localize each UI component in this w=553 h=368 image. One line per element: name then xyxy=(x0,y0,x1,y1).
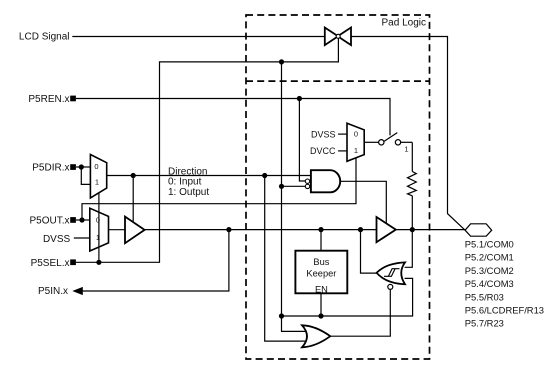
svg-text:DVSS: DVSS xyxy=(43,234,71,245)
svg-text:EN: EN xyxy=(315,285,328,295)
svg-text:1: 1 xyxy=(404,145,408,154)
svg-text:DVCC: DVCC xyxy=(310,146,336,156)
svg-text:P5.2/COM1: P5.2/COM1 xyxy=(465,252,514,263)
svg-text:0: 0 xyxy=(354,130,358,139)
svg-text:P5IN.x: P5IN.x xyxy=(38,286,68,297)
svg-text:0: Input: 0: Input xyxy=(168,176,202,187)
svg-text:Bus: Bus xyxy=(313,257,329,267)
svg-text:P5.6/LCDREF/R13: P5.6/LCDREF/R13 xyxy=(465,305,544,316)
svg-text:P5.4/COM3: P5.4/COM3 xyxy=(465,278,514,289)
svg-text:P5.5/R03: P5.5/R03 xyxy=(465,291,504,302)
svg-text:P5.7/R23: P5.7/R23 xyxy=(465,318,504,329)
svg-text:P5SEL.x: P5SEL.x xyxy=(31,258,70,269)
svg-text:1: 1 xyxy=(354,146,358,155)
svg-text:1: 1 xyxy=(96,233,100,242)
svg-text:P5DIR.x: P5DIR.x xyxy=(32,163,69,174)
svg-text:P5OUT.x: P5OUT.x xyxy=(29,216,69,227)
svg-text:Pad Logic: Pad Logic xyxy=(382,17,426,28)
svg-text:Keeper: Keeper xyxy=(306,269,336,279)
svg-text:0: 0 xyxy=(96,215,100,224)
svg-text:P5REN.x: P5REN.x xyxy=(28,94,69,105)
svg-text:P5.3/COM2: P5.3/COM2 xyxy=(465,265,514,276)
svg-text:1: 1 xyxy=(95,177,99,186)
svg-text:LCD Signal: LCD Signal xyxy=(19,32,70,43)
svg-text:0: 0 xyxy=(94,162,98,171)
svg-text:1: Output: 1: Output xyxy=(168,187,209,198)
svg-text:DVSS: DVSS xyxy=(311,129,336,139)
svg-text:P5.1/COM0: P5.1/COM0 xyxy=(465,239,514,250)
